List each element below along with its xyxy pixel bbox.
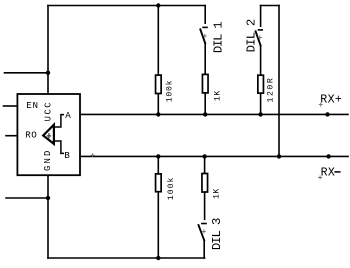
svg-text:GND: GND [43, 149, 53, 171]
svg-text:100k: 100k [165, 80, 175, 103]
svg-text:120R: 120R [267, 77, 276, 103]
svg-text:RX+: RX+ [320, 93, 342, 106]
svg-text:1K: 1K [214, 90, 223, 101]
svg-text:100k: 100k [166, 177, 176, 200]
svg-text:A: A [65, 110, 71, 121]
svg-text:DIL 2: DIL 2 [244, 19, 258, 52]
svg-text:UCC: UCC [44, 101, 54, 121]
svg-text:EN: EN [26, 100, 38, 111]
svg-text:DIL 1: DIL 1 [212, 22, 226, 53]
svg-text:DIL 3: DIL 3 [210, 218, 224, 250]
svg-text:RO: RO [25, 130, 37, 141]
svg-text:B: B [64, 150, 70, 161]
svg-text:RX: RX [321, 166, 336, 179]
svg-text:1K: 1K [212, 188, 221, 199]
